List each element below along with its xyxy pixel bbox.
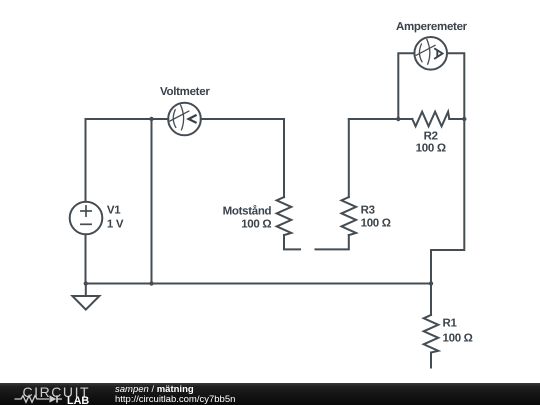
svg-text:R3: R3 — [361, 205, 375, 217]
logo diode — [50, 395, 57, 402]
logo resistor squiggle — [15, 396, 50, 403]
wire top-left horizontal from V1 top to voltmeter — [86, 118, 169, 120]
footer url — [115, 395, 235, 405]
svg-text:100 Ω: 100 Ω — [443, 333, 473, 345]
wire R3 top vertical — [348, 119, 350, 197]
voltage source V1 circle — [70, 202, 103, 235]
svg-text:Voltmeter: Voltmeter — [160, 86, 210, 98]
V1 minus sign — [81, 223, 91, 225]
wire right branch down and jog left — [431, 119, 464, 284]
V1 plus sign — [81, 206, 91, 216]
wire amperemeter left branch — [398, 53, 414, 119]
voltmeter dial outer arc — [181, 105, 184, 130]
resistor Motstand (zigzag) — [277, 197, 292, 235]
wire Motstand branch vertical down to resistor — [283, 119, 285, 197]
amperemeter dial outer arc — [427, 39, 430, 64]
amperemeter U_A circle — [414, 37, 447, 70]
wire R3 bottom hook (open end) — [316, 235, 349, 249]
wire voltmeter branch vertical down to bottom rail — [151, 119, 153, 284]
amperemeter needle — [416, 45, 435, 55]
voltmeter dial inner arc — [173, 110, 176, 128]
amperemeter letter A (rotated, drawn as strokes) — [434, 48, 442, 59]
wire bottom horizontal — [86, 283, 432, 285]
svg-text:Amperemeter: Amperemeter — [396, 21, 468, 33]
svg-text:V1: V1 — [107, 205, 121, 217]
node junction dot at R1 top — [429, 281, 433, 285]
voltmeter needle — [170, 111, 189, 121]
amperemeter dial inner arc — [419, 44, 422, 62]
wire amperemeter right branch — [447, 53, 464, 119]
node junction dot voltmeter branch bottom — [149, 281, 153, 285]
node junction dot at ground — [84, 281, 88, 285]
node junction dot left of R2 — [396, 117, 400, 121]
voltmeter U_V circle — [168, 103, 201, 136]
wire V1 bottom vertical — [85, 235, 87, 284]
svg-text:LAB: LAB — [67, 395, 89, 405]
node junction dot at voltmeter branch — [149, 117, 153, 121]
resistor R1 (zigzag) — [424, 315, 439, 353]
svg-text:R1: R1 — [443, 318, 458, 330]
svg-text:Motstånd: Motstånd — [223, 204, 272, 217]
footer bar — [0, 383, 540, 405]
ground — [85, 284, 87, 297]
footer title sampen / matning — [115, 385, 194, 395]
node junction dot right of R2 — [462, 117, 466, 121]
wire Motstand bottom hook (open end) — [284, 235, 300, 249]
resistor R3 (zigzag) — [342, 197, 357, 235]
svg-text:1 V: 1 V — [107, 219, 124, 231]
wire V1 top vertical — [85, 119, 87, 202]
wire R1 top lead — [430, 284, 432, 316]
svg-text:100 Ω: 100 Ω — [416, 143, 446, 155]
wire voltmeter right to Motstand branch corner — [201, 118, 284, 120]
wire R1 bottom lead (open end) — [430, 353, 432, 368]
svg-text:100 Ω: 100 Ω — [361, 218, 391, 230]
svg-text:100 Ω: 100 Ω — [241, 218, 271, 230]
resistor R2 (zigzag) — [412, 112, 449, 127]
voltmeter letter V (rotated, drawn as strokes) — [189, 115, 197, 123]
wire R2 right to right branch — [449, 118, 464, 120]
svg-text:R2: R2 — [424, 131, 438, 143]
wire top horizontal R3 corner to R2 left — [349, 118, 413, 120]
